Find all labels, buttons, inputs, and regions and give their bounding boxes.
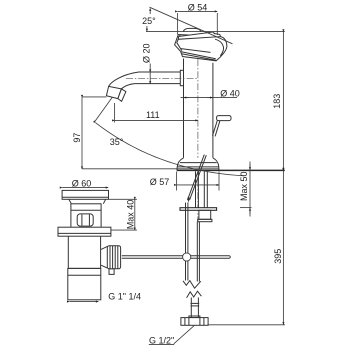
washer plate <box>180 208 217 211</box>
spout outer contour <box>109 72 181 86</box>
base ring line 2 <box>177 166 219 168</box>
svg-text:Max 40: Max 40 <box>126 200 136 230</box>
drain tube <box>67 236 69 268</box>
base skirt right curve <box>213 158 219 171</box>
drain tailpiece <box>68 268 101 299</box>
drain nut lower tab <box>109 269 114 275</box>
handle head block <box>175 35 227 61</box>
centerline vertical of body <box>197 47 199 221</box>
svg-text:35°: 35° <box>110 137 124 147</box>
svg-text:111: 111 <box>146 110 160 120</box>
svg-text:183: 183 <box>272 94 282 109</box>
svg-text:Ø 40: Ø 40 <box>220 88 240 98</box>
base ring line <box>180 162 217 164</box>
svg-text:G 1/2": G 1/2" <box>149 335 174 345</box>
dimension 25 deg <box>150 7 233 44</box>
stub thread lines <box>191 302 200 304</box>
dimension D54 <box>178 10 218 12</box>
handle cap <box>183 28 201 31</box>
dimension 111 <box>114 103 116 123</box>
97 extension line bottom / base plate top <box>82 168 219 170</box>
centerline of spout <box>126 77 198 79</box>
handle top plate <box>178 32 220 39</box>
dimension D40 <box>181 97 238 99</box>
dimension G 1 1/4 <box>70 301 99 303</box>
handle ear inner arc <box>215 39 224 56</box>
side lever rod <box>213 121 218 136</box>
wire spout tube white fill <box>109 72 181 90</box>
svg-text:Ø 57: Ø 57 <box>150 177 170 187</box>
drain linkage horizontal rod <box>122 256 231 258</box>
dimension 35 deg arc <box>96 123 244 176</box>
drain side collar <box>101 246 107 249</box>
svg-text:395: 395 <box>273 249 283 264</box>
base skirt left curve <box>177 158 184 171</box>
svg-text:Ø 20: Ø 20 <box>142 43 152 63</box>
svg-text:Ø 54: Ø 54 <box>188 2 208 12</box>
svg-text:G 1" 1/4: G 1" 1/4 <box>108 291 141 301</box>
drain ribbed nut <box>107 246 120 269</box>
pipe break upper <box>183 281 201 289</box>
dimension D57 <box>176 172 178 191</box>
ball joint <box>183 253 191 261</box>
mounting nut <box>199 210 211 219</box>
dimension D20 <box>149 64 151 73</box>
handle left facet inner line <box>177 35 182 51</box>
pop-up rod wedge <box>187 198 190 203</box>
faucet body left edge <box>183 59 185 158</box>
drain window <box>77 214 93 226</box>
spout collar ring <box>106 86 121 98</box>
drain neck <box>69 199 71 204</box>
dimension Max40 <box>109 198 137 200</box>
dimension D60 <box>62 187 108 189</box>
dimension Max50 <box>249 162 251 217</box>
supply stub pipe <box>190 298 192 318</box>
drain locknut <box>58 227 111 236</box>
svg-text:Max 50: Max 50 <box>239 171 249 201</box>
drain upper body <box>71 204 101 229</box>
side lever bar <box>217 116 231 121</box>
dimension 183 <box>282 32 284 170</box>
spout mouth <box>118 89 126 101</box>
handle collar band lines <box>181 49 211 53</box>
svg-text:97: 97 <box>72 133 82 143</box>
drain flange <box>62 190 108 199</box>
dimension 97 <box>82 96 106 98</box>
dimension 35 deg ray <box>95 97 112 121</box>
base skirt fill <box>177 158 219 171</box>
bottom reference line <box>208 324 285 326</box>
G 1/2 nut <box>189 316 200 318</box>
mounting shank hose lines <box>195 171 197 207</box>
pop-up rod diagonal <box>187 155 204 201</box>
spout inner contour <box>121 84 180 89</box>
supply pipe below nut <box>196 222 198 282</box>
dimension 395 <box>282 171 284 325</box>
pipe break lower <box>187 291 202 298</box>
svg-text:25°: 25° <box>142 16 156 26</box>
pop-up rod vertical <box>185 203 187 281</box>
svg-text:Ø 60: Ø 60 <box>72 178 92 188</box>
label G 1/2 leader <box>174 326 194 344</box>
faucet body right edge <box>212 63 214 158</box>
deck line <box>177 169 285 171</box>
spout mounting collar at body <box>180 70 183 85</box>
